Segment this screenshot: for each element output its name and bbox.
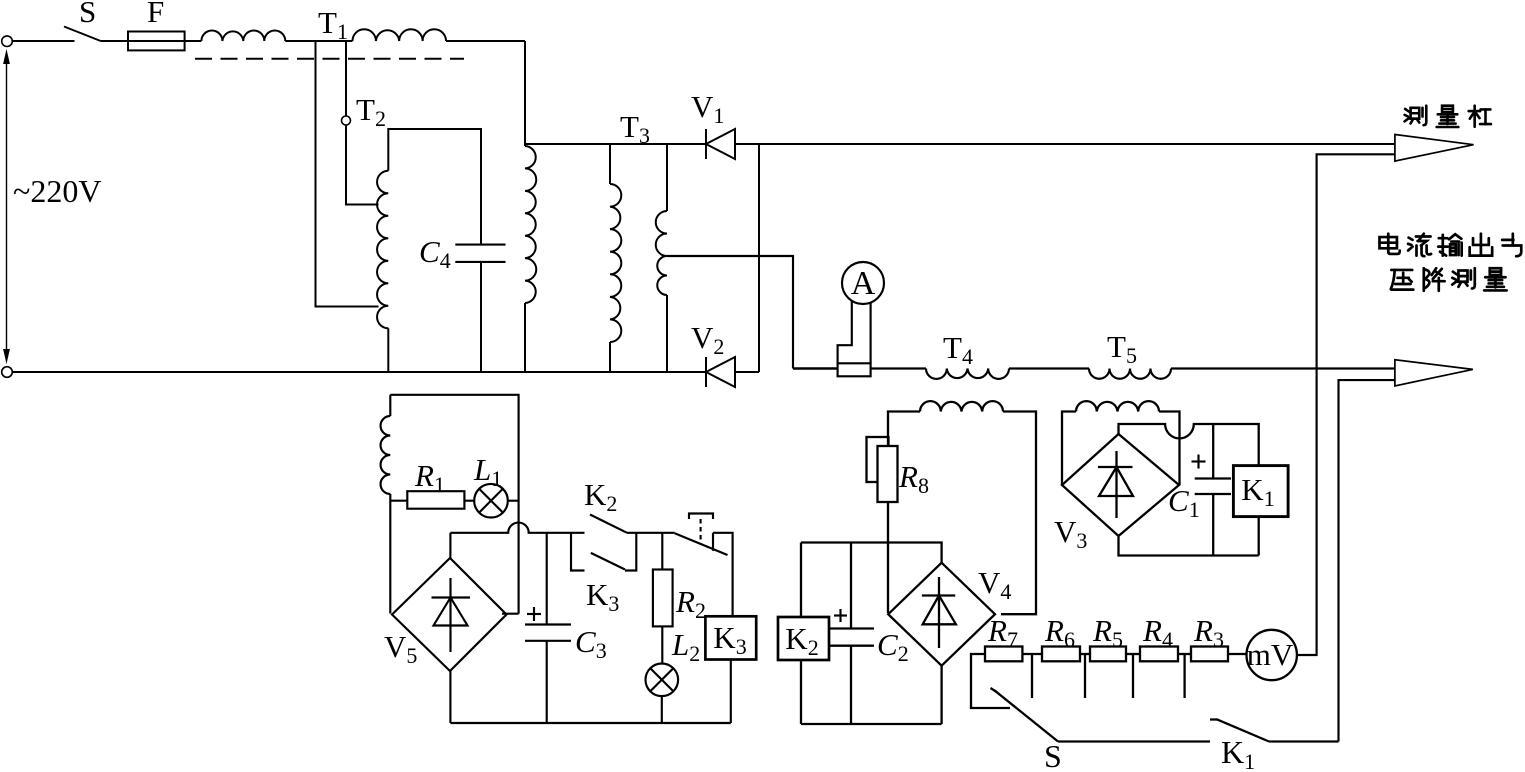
- selector tap stubs: [1032, 654, 1185, 698]
- arrow output bottom: [1395, 360, 1473, 386]
- capacitor C3: [525, 625, 571, 641]
- wire winding top to C4 top: [388, 129, 481, 245]
- capacitor C2: [829, 629, 874, 646]
- wire K2 relay branch: [800, 543, 802, 725]
- transformer T4 primary: [926, 369, 1009, 379]
- wire R2 top: [661, 533, 663, 570]
- svg-text:~220V: ~220V: [13, 173, 101, 209]
- winding right coil (T3 drive): [525, 146, 536, 303]
- transformer T4 secondary: [888, 412, 920, 447]
- wire K1 to riser: [1269, 740, 1339, 742]
- winding T2 main (left coil): [377, 171, 388, 328]
- wire V4 top rail: [801, 543, 942, 564]
- wire ammeter right lead: [870, 302, 872, 363]
- svg-text:mV: mV: [1247, 637, 1294, 672]
- wire L2 bottom: [661, 696, 663, 723]
- wire S to fuse: [101, 40, 128, 42]
- wire bottom S to K1: [1058, 740, 1210, 742]
- wire C3 top: [546, 533, 548, 625]
- resistor R6: [1042, 647, 1080, 662]
- wire ammeter left lead: [838, 301, 852, 363]
- transformer T3 primary: [609, 144, 611, 184]
- winding V5 supply coil: [389, 395, 391, 416]
- wire pushbutton to K3 relay: [713, 533, 733, 617]
- switch S: [64, 27, 101, 42]
- wire tap node to winding lower tap: [316, 41, 379, 307]
- ammeter A: [842, 262, 884, 304]
- wire C4 bottom to rail: [480, 262, 482, 372]
- millivoltmeter mV: [1247, 630, 1297, 680]
- svg-text:F: F: [147, 0, 164, 29]
- fuse F: [128, 32, 185, 51]
- wire C3 bottom: [546, 641, 548, 723]
- wire fuse to choke: [185, 40, 202, 42]
- resistor R2: [653, 570, 673, 627]
- wire riser mV to top arrow: [1297, 154, 1395, 655]
- relay K3: [705, 616, 756, 659]
- wire V3 top rail with hop: [1119, 424, 1259, 466]
- wire V1 side to V2 side: [758, 144, 760, 372]
- wire resistor chain: [1022, 653, 1246, 655]
- wire T1 to right: [446, 40, 525, 42]
- wire K2 right to R2 node: [627, 532, 675, 534]
- switch S selector blade: [991, 688, 1059, 742]
- plus sign C2: [834, 609, 847, 622]
- bridge rectifier V5: [392, 558, 507, 671]
- wire R2 to L2: [661, 626, 663, 663]
- resistor R8: [878, 446, 898, 502]
- wire L1 to right vertical: [508, 500, 519, 502]
- transformer T3 secondary: [666, 144, 668, 211]
- wire main output top (to V1 and arrow): [525, 143, 1395, 145]
- wire winding bottom to V5 left vertex: [389, 494, 391, 614]
- wire T1 to T2 terminal: [345, 41, 347, 116]
- wire K3 relay bottom: [730, 660, 732, 724]
- diode V1: [706, 129, 735, 159]
- diode V2: [706, 357, 735, 387]
- label 压降测量: [1391, 268, 1507, 291]
- wire shunt to T4: [871, 367, 926, 369]
- shunt resistor: [838, 363, 871, 376]
- pushbutton blade: [675, 533, 728, 555]
- wire T3 center tap to output: [667, 256, 793, 369]
- switch K2 blade: [590, 515, 627, 533]
- svg-text:S: S: [79, 0, 96, 29]
- resistor R8 outer bracket: [867, 437, 889, 482]
- wire V5 top vertex to rail: [449, 533, 451, 558]
- terminal T2: [342, 116, 351, 125]
- wire R1 branch: [390, 500, 407, 502]
- inductor T1 primary b: [353, 29, 447, 41]
- label 电流输出与: [1380, 234, 1522, 257]
- bridge rectifier V4: [888, 563, 995, 666]
- wire bottom rail V5 section: [450, 722, 730, 724]
- wire K1 relay bottom: [1258, 517, 1260, 556]
- transformer T5 secondary: [1062, 412, 1076, 485]
- wire V5 rail with hop: [450, 523, 584, 533]
- wire right coil bottom to rail: [524, 303, 526, 372]
- wire bottom rail: [12, 371, 759, 373]
- transformer T1 core (dashed): [195, 58, 464, 60]
- wire V5 box top edge: [390, 395, 518, 614]
- svg-text:A: A: [851, 265, 876, 302]
- bridge rectifier V3: [1062, 434, 1179, 536]
- wire R7 to switch S arm: [971, 654, 1010, 708]
- switch K1 blade: [1210, 719, 1269, 741]
- inductor choke (T1 primary a): [201, 31, 285, 41]
- terminal: source top: [2, 36, 13, 47]
- wire right vertical to V5 right vertex: [502, 613, 519, 615]
- lamp L2: [646, 664, 679, 697]
- wire V4 bottom rail: [801, 723, 942, 725]
- wire V4 bottom vertex to rail: [940, 666, 942, 724]
- plus sign C3: [527, 607, 541, 621]
- lamp L1: [474, 484, 508, 518]
- capacitor C1: [1195, 479, 1231, 495]
- transformer T5 primary: [1089, 369, 1171, 379]
- capacitor C4: [455, 245, 505, 262]
- wire output to shunt: [793, 367, 838, 370]
- wire T4 to T5: [1009, 367, 1089, 369]
- wire R1 to L1: [464, 500, 474, 502]
- relay K2: [778, 617, 829, 660]
- wire R8 to V4 left vertex: [887, 502, 889, 613]
- wire top-left: [12, 40, 74, 42]
- resistor R4: [1140, 647, 1178, 662]
- resistor R3: [1191, 647, 1228, 662]
- pushbutton contact tick: [712, 533, 714, 551]
- wire choke to T1: [285, 40, 352, 42]
- wire T2 terminal to winding upper tap: [346, 125, 379, 205]
- resistor R1: [407, 491, 464, 509]
- switch K3 branch: [571, 533, 585, 571]
- arrow output top: [1395, 135, 1474, 162]
- resistor R5: [1090, 647, 1126, 662]
- relay K1: [1233, 466, 1288, 517]
- wire C1 branch: [1212, 424, 1214, 556]
- label 测量杠: [1405, 106, 1491, 127]
- wire top to right coil: [524, 41, 526, 146]
- wire V3 bottom rail: [1119, 536, 1259, 556]
- terminal: source bottom: [2, 367, 13, 378]
- source voltage arrow: [3, 49, 10, 364]
- wire winding bottom to rail: [387, 328, 389, 372]
- wire C2 branch: [850, 543, 852, 725]
- pushbutton head: [689, 514, 713, 545]
- wire riser K1 to bottom arrow: [1339, 380, 1395, 741]
- wire V5 bottom vertex to rail: [449, 671, 451, 723]
- plus sign C1: [1192, 455, 1206, 469]
- wire T5 to bottom arrow: [1171, 367, 1395, 369]
- svg-text:S: S: [1044, 738, 1062, 772]
- resistor R7: [985, 647, 1022, 662]
